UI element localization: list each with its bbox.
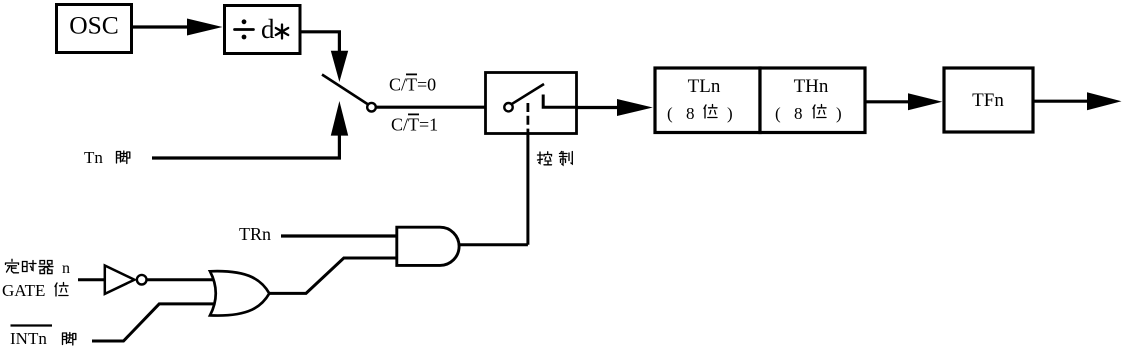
wire divider to switch elbow bbox=[299, 32, 339, 52]
svg-text:TLn: TLn bbox=[688, 76, 721, 97]
label Tn pin bbox=[84, 148, 130, 167]
svg-text:GATE: GATE bbox=[2, 281, 45, 300]
dashed control line inside box bbox=[527, 103, 530, 134]
svg-text:(: ( bbox=[667, 104, 673, 123]
wire inverter to OR gate bbox=[147, 278, 214, 281]
switch arm diagonal bbox=[322, 75, 368, 105]
AND gate bbox=[397, 227, 459, 265]
OR gate bbox=[210, 271, 269, 315]
svg-text:d: d bbox=[261, 14, 275, 44]
wire INTn to OR lower input bbox=[92, 304, 215, 341]
svg-text:THn: THn bbox=[794, 76, 829, 97]
svg-text:(: ( bbox=[775, 104, 781, 123]
arrowhead into TFn bbox=[908, 93, 942, 110]
wire Tn pin up bbox=[152, 135, 339, 158]
inverter bubble bbox=[137, 275, 147, 285]
arrowhead into divider box bbox=[187, 19, 223, 36]
control switch arm diagonal bbox=[512, 84, 545, 104]
wire control down to AND output bbox=[526, 134, 529, 245]
label C/T=1 bbox=[391, 115, 438, 135]
wire switch to control box bbox=[376, 106, 505, 109]
wire control box to TLn bbox=[577, 106, 620, 109]
wire OSC to divider bbox=[131, 25, 190, 28]
wire TRn to AND gate bbox=[281, 234, 396, 237]
wire AND output to control bbox=[459, 243, 528, 246]
arrowhead output right bbox=[1087, 92, 1122, 110]
box OSC bbox=[57, 5, 132, 53]
wire THn to TFn bbox=[865, 100, 911, 103]
switch pivot circle bbox=[367, 103, 376, 112]
svg-text:8: 8 bbox=[686, 104, 695, 123]
label timer n (ding shi qi n) bbox=[6, 259, 71, 277]
svg-text:n: n bbox=[62, 260, 70, 277]
svg-text:OSC: OSC bbox=[69, 11, 119, 40]
label control (kong zhi) bbox=[538, 152, 573, 166]
svg-text:): ) bbox=[836, 104, 842, 123]
box divider d* bbox=[225, 6, 301, 54]
box THn bbox=[760, 68, 865, 133]
wire GATE to inverter bbox=[78, 278, 104, 281]
svg-text:INTn: INTn bbox=[10, 329, 47, 348]
box TFn bbox=[944, 68, 1033, 132]
wire OR output to AND lower input bbox=[269, 258, 396, 293]
arrowhead down to switch bbox=[331, 51, 348, 82]
svg-text:8: 8 bbox=[794, 104, 803, 123]
box TLn bbox=[655, 68, 760, 133]
label C/T=0 bbox=[389, 75, 436, 95]
svg-text:TFn: TFn bbox=[972, 90, 1004, 111]
svg-text:C/T=1: C/T=1 bbox=[391, 115, 438, 135]
arrowhead into TLn bbox=[617, 99, 653, 116]
label GATE bit bbox=[2, 281, 68, 300]
inverter NOT gate bbox=[105, 266, 135, 294]
svg-text:TRn: TRn bbox=[239, 224, 271, 244]
control switch pivot circle bbox=[504, 103, 512, 111]
svg-text:Tn: Tn bbox=[84, 148, 103, 167]
label INTn pin with overline bbox=[10, 326, 76, 349]
control switch right contact bbox=[543, 95, 578, 108]
svg-text:): ) bbox=[727, 104, 733, 123]
arrowhead up to switch bbox=[331, 101, 348, 136]
wire TFn out bbox=[1033, 100, 1090, 103]
box control switch bbox=[486, 73, 577, 134]
svg-text:C/T=0: C/T=0 bbox=[389, 75, 436, 95]
